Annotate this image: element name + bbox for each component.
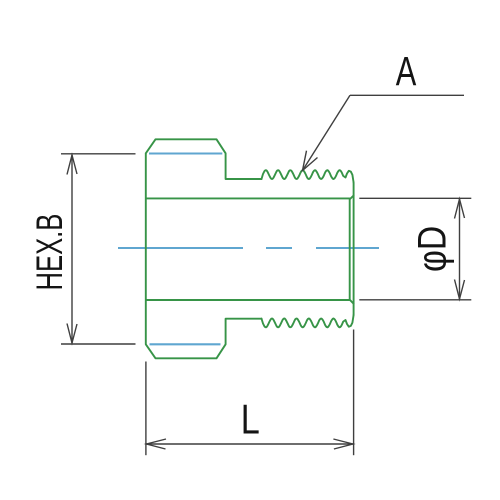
end face outer edge xyxy=(353,183,355,316)
hex head outline xyxy=(146,139,262,358)
hex flat line top (blue) xyxy=(149,152,222,154)
svg-text:φD: φD xyxy=(410,226,454,272)
svg-text:L: L xyxy=(241,397,260,443)
extension line left xyxy=(145,362,147,456)
dimension L xyxy=(146,330,354,456)
extension line right xyxy=(353,330,355,456)
extension line top xyxy=(61,153,136,155)
arrow left xyxy=(147,439,167,449)
centerline (axis) xyxy=(118,247,379,249)
arrow up xyxy=(455,199,465,219)
leader arrowhead xyxy=(303,151,318,171)
dimension phiD xyxy=(359,198,471,299)
dimension line xyxy=(71,155,73,343)
end chamfer edge xyxy=(350,196,354,304)
dimension line xyxy=(459,199,461,299)
arrow right xyxy=(333,439,353,449)
thread profile bottom xyxy=(262,315,354,327)
leader A xyxy=(303,95,465,170)
svg-text:HEX.B: HEX.B xyxy=(28,214,70,291)
thread root line top xyxy=(146,197,350,199)
thread profile top xyxy=(262,170,354,182)
arrow down xyxy=(455,280,465,300)
arrow down xyxy=(67,324,77,344)
thread root line bottom xyxy=(146,299,350,301)
extension line bottom xyxy=(61,343,136,345)
leader horizontal xyxy=(350,94,464,96)
extension line top xyxy=(359,197,471,199)
arrow up xyxy=(67,155,77,175)
dimension line xyxy=(147,443,353,445)
leader diagonal xyxy=(303,95,351,170)
fitting body outline (green) xyxy=(146,139,354,358)
extension line bottom xyxy=(359,299,471,301)
svg-text:A: A xyxy=(396,48,417,94)
dimension HEX.B xyxy=(61,154,136,344)
hex flat line bottom (blue) xyxy=(150,343,221,345)
